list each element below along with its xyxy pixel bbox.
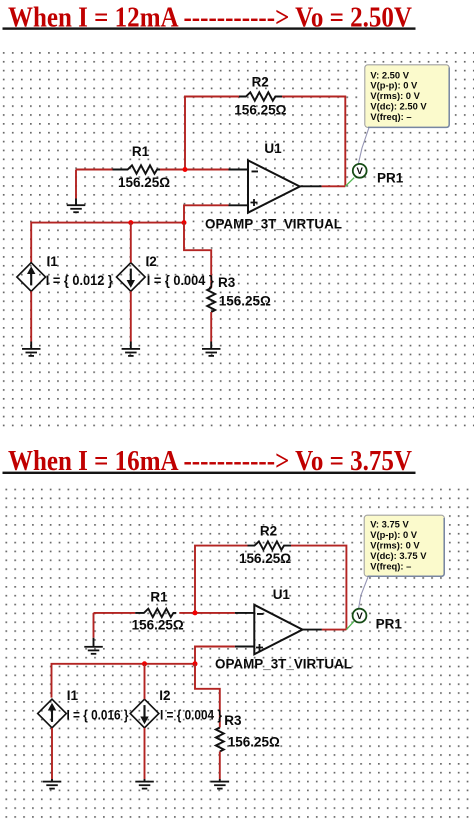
svg-text:R2: R2	[252, 75, 269, 90]
svg-text:I1: I1	[67, 688, 79, 703]
svg-text:U1: U1	[273, 587, 291, 602]
svg-text:I2: I2	[159, 688, 170, 703]
op-amp U1	[205, 141, 342, 232]
wire I2 top (circuit 2)	[144, 664, 146, 699]
ground (I1, circuit 2)	[43, 781, 62, 790]
svg-text:OPAMP_3T_VIRTUAL: OPAMP_3T_VIRTUAL	[205, 217, 342, 232]
wire bus I1/I2	[31, 223, 184, 263]
node junction plus/bus (circuit 2)	[193, 661, 198, 666]
svg-text:PR1: PR1	[377, 171, 404, 186]
current source I1	[17, 254, 114, 291]
wire I2 top	[130, 223, 132, 263]
node junction minus/R2	[183, 167, 188, 172]
wire minus input (circuit 2)	[94, 612, 255, 614]
svg-text:V: V	[357, 166, 364, 177]
svg-text:R3: R3	[218, 275, 236, 290]
resistor R3 (circuit 2)	[216, 713, 280, 752]
resistor R2 (circuit 2)	[239, 524, 291, 566]
wire I1 to ground	[30, 291, 32, 348]
current source I1 (circuit 2)	[38, 688, 129, 728]
svg-text:I2: I2	[146, 254, 157, 269]
svg-text:V: 2.50 V: V: 2.50 V	[370, 69, 409, 80]
wire R3 to ground (circuit 2)	[219, 752, 221, 782]
wire minus input	[76, 169, 248, 171]
svg-text:V(dc): 2.50 V: V(dc): 2.50 V	[370, 101, 427, 112]
svg-text:156.25Ω: 156.25Ω	[239, 551, 291, 566]
svg-text:V(freq): –: V(freq): –	[370, 111, 411, 122]
svg-text:V: V	[356, 611, 363, 622]
grid area 1	[0, 46, 474, 427]
measurement box 2	[364, 515, 444, 576]
wire I1 to ground (circuit 2)	[51, 728, 53, 781]
probe PR1 (circuit 2)	[346, 577, 402, 632]
current source I2 (circuit 2)	[130, 688, 222, 728]
svg-text:OPAMP_3T_VIRTUAL: OPAMP_3T_VIRTUAL	[215, 656, 352, 671]
grid area 2	[0, 486, 474, 821]
svg-text:I1: I1	[47, 254, 59, 269]
wire output (circuit 2)	[303, 629, 347, 631]
ground (R1 left)	[67, 204, 86, 213]
svg-text:156.25Ω: 156.25Ω	[219, 294, 271, 309]
resistor R1	[113, 144, 171, 190]
svg-text:U1: U1	[264, 141, 282, 156]
ground (R1, circuit 2)	[84, 646, 103, 655]
wire bus I1/I2 (circuit 2)	[52, 664, 196, 698]
ground (R3, circuit 2)	[211, 781, 230, 790]
svg-text:R1: R1	[150, 590, 168, 605]
svg-text:I = { 0.016 }: I = { 0.016 }	[67, 707, 130, 722]
op-amp U1 (circuit 2)	[215, 587, 352, 671]
svg-text:PR1: PR1	[376, 617, 403, 632]
node junction plus/bus	[182, 220, 187, 225]
svg-text:156.25Ω: 156.25Ω	[234, 102, 286, 117]
wire R1 to ground	[75, 170, 77, 205]
wire R3 to ground	[210, 312, 212, 348]
node junction I2/bus (circuit 2)	[142, 661, 147, 666]
current source I2	[116, 254, 214, 291]
node junction minus/R2 (circuit 2)	[193, 610, 198, 615]
svg-text:V(rms): 0 V: V(rms): 0 V	[370, 539, 420, 550]
ground (I2, circuit 2)	[135, 781, 154, 790]
svg-text:V: 3.75 V: V: 3.75 V	[370, 519, 409, 530]
svg-text:V(rms): 0 V: V(rms): 0 V	[370, 90, 420, 101]
ground (I2)	[122, 348, 141, 357]
svg-text:156.25Ω: 156.25Ω	[228, 734, 280, 749]
resistor R2	[234, 75, 286, 118]
svg-text:I = { 0.012 }: I = { 0.012 }	[46, 273, 114, 288]
wire I2 to ground (circuit 2)	[144, 728, 146, 781]
resistor R3	[207, 275, 271, 312]
wire output	[300, 185, 346, 187]
svg-text:V(dc): 3.75 V: V(dc): 3.75 V	[370, 550, 427, 561]
wire feedback loop R2 top	[185, 97, 345, 187]
resistor R1 (circuit 2)	[132, 590, 184, 633]
heading title 1	[3, 2, 416, 33]
probe PR1	[345, 128, 403, 187]
wire plus input (circuit 2)	[195, 647, 254, 664]
wire plus input	[184, 205, 248, 222]
heading title 2	[3, 446, 416, 477]
svg-text:V(p-p): 0 V: V(p-p): 0 V	[370, 529, 418, 540]
svg-text:I = { 0.004 }: I = { 0.004 }	[147, 273, 215, 288]
svg-text:I = { 0.004 }: I = { 0.004 }	[160, 707, 223, 722]
svg-text:156.25Ω: 156.25Ω	[132, 618, 184, 633]
wire feedback loop R2 top (circuit 2)	[195, 546, 346, 630]
svg-text:R2: R2	[260, 524, 277, 539]
svg-text:V(p-p): 0 V: V(p-p): 0 V	[370, 80, 418, 91]
wire I2 to ground	[130, 291, 132, 348]
node junction I2/bus	[128, 220, 133, 225]
ground (R3)	[202, 348, 221, 357]
ground (I1)	[22, 348, 41, 357]
wire R1 to ground (circuit 2)	[93, 613, 95, 647]
wire R3 feed (circuit 2)	[195, 664, 220, 728]
svg-text:V(freq): –: V(freq): –	[370, 560, 411, 571]
svg-text:R3: R3	[224, 713, 242, 728]
wire R3 feed	[184, 223, 211, 288]
svg-text:R1: R1	[132, 144, 150, 159]
measurement box 1	[365, 65, 449, 128]
svg-text:156.25Ω: 156.25Ω	[118, 175, 170, 190]
